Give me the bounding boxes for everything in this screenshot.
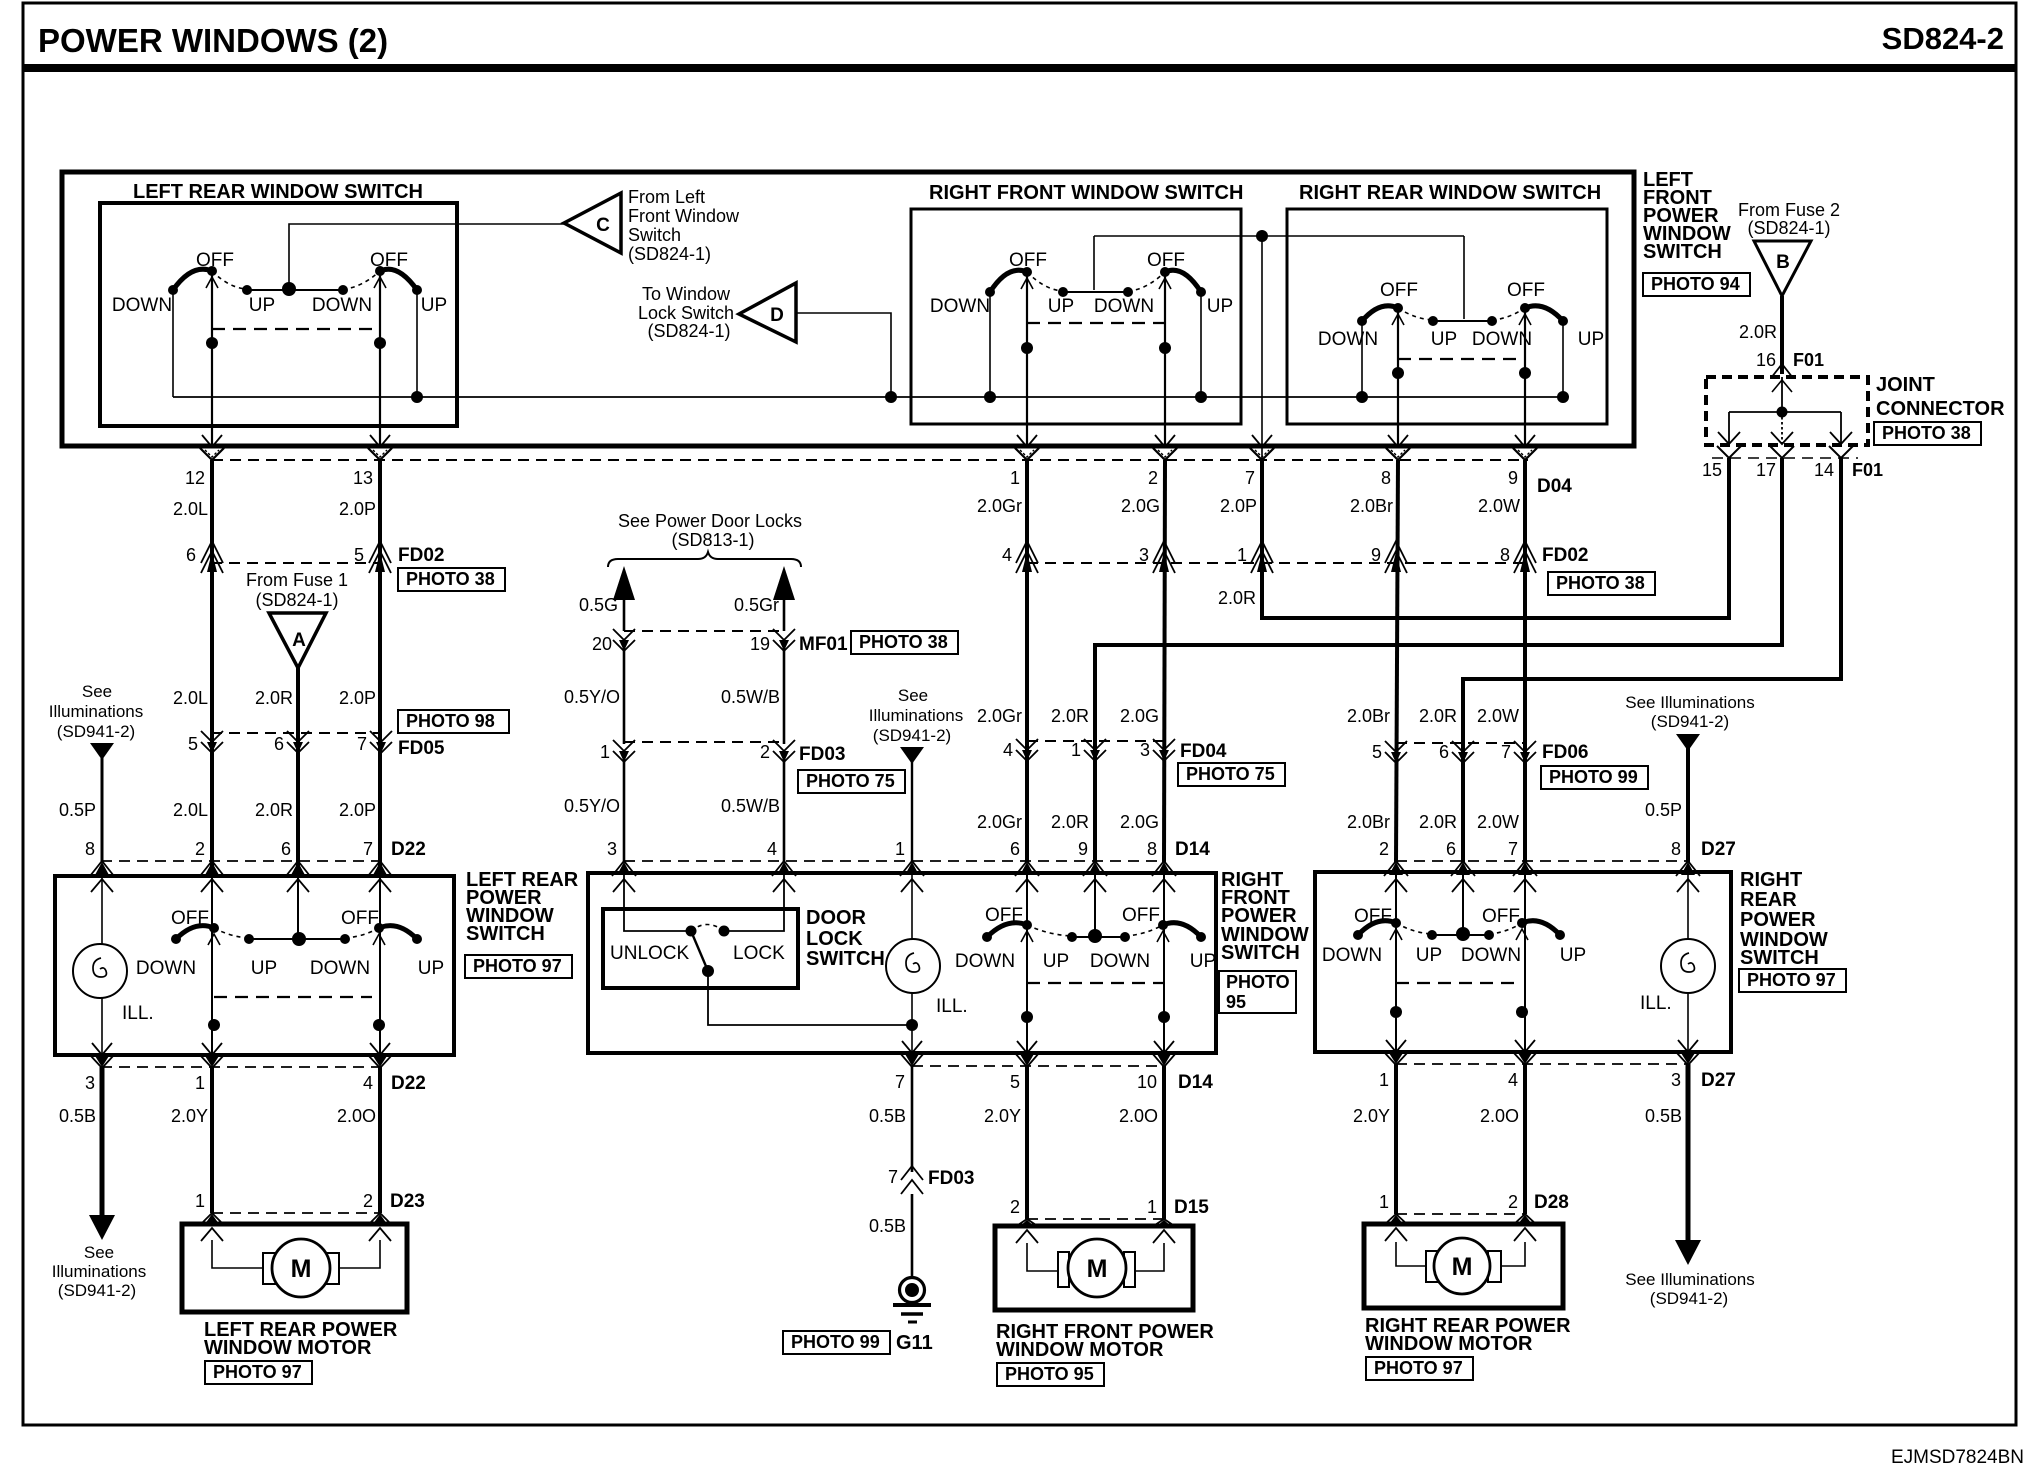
svg-text:1: 1 <box>1071 740 1081 760</box>
photo box PHOTO 75 FD03 <box>798 770 905 793</box>
svg-text:(SD941-2): (SD941-2) <box>1651 712 1729 731</box>
D23 pin 2 connector symbol <box>373 1214 387 1224</box>
FD02 pin 1 chevrons <box>1251 541 1273 563</box>
svg-text:1: 1 <box>1379 1070 1389 1090</box>
svg-text:C: C <box>596 215 610 236</box>
svg-text:6: 6 <box>1439 742 1449 762</box>
D15 pin 1 connector symbol <box>1157 1220 1171 1226</box>
right rear power switch motor wire 1 <box>1395 872 1397 1052</box>
D14 top pin 4 connector symbol <box>777 862 791 875</box>
svg-text:0.5W/B: 0.5W/B <box>721 796 780 816</box>
svg-text:2.0R: 2.0R <box>1419 706 1457 726</box>
left rear window switch right wiper arrow <box>374 277 386 288</box>
svg-text:6: 6 <box>1446 839 1456 859</box>
right front motor internal wire 2 <box>1134 1243 1164 1271</box>
left rear window switch left wiper arrow <box>206 277 218 288</box>
right front power switch mech dashed <box>1027 982 1163 984</box>
right front switch DOWN contact drop <box>989 292 991 397</box>
wire 2.0Y middle <box>1025 1066 1029 1219</box>
svg-text:2.0Y: 2.0Y <box>1353 1106 1390 1126</box>
svg-text:PHOTO 97: PHOTO 97 <box>1747 970 1836 990</box>
D15 pin 2 connector symbol <box>1020 1220 1034 1226</box>
D27 top pin 7 connector symbol <box>1518 862 1532 875</box>
door lock contact dots <box>686 926 697 937</box>
svg-text:FD03: FD03 <box>799 744 845 765</box>
svg-text:FD05: FD05 <box>398 738 445 759</box>
svg-text:PHOTO 38: PHOTO 38 <box>406 569 495 589</box>
svg-text:DOWN: DOWN <box>312 295 372 316</box>
door lock switch inner box <box>603 909 798 988</box>
left rear power switch center junction dot <box>292 932 306 946</box>
svg-text:LEFT REAR WINDOW SWITCH: LEFT REAR WINDOW SWITCH <box>133 181 423 203</box>
FD04 pin 1 chevrons <box>1084 739 1106 750</box>
svg-text:PHOTO 99: PHOTO 99 <box>1549 767 1638 787</box>
svg-text:7: 7 <box>363 839 373 859</box>
photo box PHOTO 38 MF01 <box>851 631 958 654</box>
svg-text:0.5P: 0.5P <box>1645 800 1682 820</box>
connector D27 top dashed line <box>1396 860 1688 862</box>
left rear power window switch left wiper dashed throw <box>214 928 249 938</box>
right front window switch right wiper arrow <box>1159 278 1171 289</box>
svg-text:REAR: REAR <box>1740 889 1797 911</box>
svg-text:UP: UP <box>418 958 444 979</box>
right rear power window switch contact dots <box>1353 930 1363 940</box>
right front switch mechanical link dashed <box>1027 322 1165 324</box>
right front power window switch left wiper arrow <box>1021 931 1033 942</box>
connector D14 bottom dashed line <box>912 1065 1164 1067</box>
svg-text:SWITCH: SWITCH <box>1643 241 1722 263</box>
svg-text:B: B <box>1776 252 1790 273</box>
svg-text:PHOTO 38: PHOTO 38 <box>1556 573 1645 593</box>
svg-text:2.0L: 2.0L <box>173 800 208 820</box>
svg-text:3: 3 <box>1139 545 1149 565</box>
svg-text:0.5B: 0.5B <box>869 1106 906 1126</box>
D27 bottom pin 4 connector symbol <box>1515 1040 1535 1052</box>
title divider bar <box>23 64 2016 72</box>
svg-text:7: 7 <box>888 1167 898 1187</box>
right rear window switch right OFF contact arc <box>1525 306 1563 321</box>
photo box PHOTO 97 right rear motor <box>1366 1357 1473 1380</box>
svg-text:UP: UP <box>1207 296 1233 317</box>
svg-text:2.0G: 2.0G <box>1120 706 1159 726</box>
right front window switch right OFF contact arc <box>1165 270 1201 292</box>
right rear power switch mech dashed <box>1396 982 1522 984</box>
D23 pin 1 connector symbol <box>205 1214 219 1224</box>
svg-text:1: 1 <box>895 839 905 859</box>
right rear window switch right wiper dashed throw <box>1492 308 1525 320</box>
left rear power window switch right wiper arrow <box>373 934 385 945</box>
right rear window switch left wiper arrow <box>1392 314 1404 325</box>
left motor internal wire 1 <box>212 1240 264 1268</box>
svg-text:See Illuminations: See Illuminations <box>1625 1270 1754 1289</box>
svg-text:2.0R: 2.0R <box>1218 588 1256 608</box>
left rear switch center feed to node C line <box>289 224 564 289</box>
FD03 pin 7 chevrons <box>901 1166 923 1180</box>
svg-text:D28: D28 <box>1534 1192 1569 1213</box>
photo box PHOTO 97 left switch <box>465 955 572 978</box>
svg-text:14: 14 <box>1814 460 1834 480</box>
svg-text:1: 1 <box>1147 1197 1157 1217</box>
svg-text:OFF: OFF <box>171 908 209 929</box>
svg-text:15: 15 <box>1702 460 1722 480</box>
svg-text:OFF: OFF <box>1122 905 1160 926</box>
svg-text:From Fuse 2: From Fuse 2 <box>1738 200 1840 220</box>
svg-text:(SD824-1): (SD824-1) <box>255 590 338 610</box>
right front window switch left wiper arrow <box>1021 278 1033 289</box>
door lock throw dashed arc <box>691 925 724 932</box>
photo box PHOTO 99 FD06 <box>1541 766 1648 789</box>
svg-text:UP: UP <box>249 295 275 316</box>
svg-text:SWITCH: SWITCH <box>1740 947 1819 969</box>
svg-text:FD03: FD03 <box>928 1168 974 1189</box>
photo box PHOTO 75 FD04 <box>1178 763 1285 786</box>
right rear power switch center junction dot <box>1456 927 1470 941</box>
connector triangle B <box>1754 241 1811 296</box>
svg-text:UP: UP <box>251 958 277 979</box>
right front window switch right wiper dashed throw <box>1128 272 1165 291</box>
svg-text:13: 13 <box>353 468 373 488</box>
svg-text:7: 7 <box>895 1072 905 1092</box>
svg-text:UNLOCK: UNLOCK <box>610 943 690 964</box>
right rear power window switch right wiper dashed throw <box>1489 923 1522 934</box>
left rear switch wire T1 drop to pin 12 <box>211 271 213 446</box>
svg-text:WINDOW MOTOR: WINDOW MOTOR <box>204 1337 372 1359</box>
svg-text:2.0W: 2.0W <box>1478 496 1520 516</box>
svg-text:2.0R: 2.0R <box>1051 812 1089 832</box>
FD03 pin 1 chevrons <box>613 740 635 751</box>
svg-text:0.5P: 0.5P <box>59 800 96 820</box>
svg-text:See: See <box>82 682 112 701</box>
svg-text:D22: D22 <box>391 839 426 860</box>
right front window switch center contact bar <box>1063 291 1128 293</box>
svg-text:D14: D14 <box>1178 1072 1213 1093</box>
svg-text:2.0Y: 2.0Y <box>171 1106 208 1126</box>
svg-text:D: D <box>770 305 784 326</box>
left rear window switch center contact bar <box>247 289 343 291</box>
ground G11 symbol <box>900 1278 925 1303</box>
svg-text:19: 19 <box>750 634 770 654</box>
svg-text:2.0Gr: 2.0Gr <box>977 496 1022 516</box>
svg-text:0.5Y/O: 0.5Y/O <box>564 796 620 816</box>
svg-text:0.5W/B: 0.5W/B <box>721 687 780 707</box>
svg-text:2.0P: 2.0P <box>339 499 376 519</box>
svg-text:2: 2 <box>1010 1197 1020 1217</box>
wire 2.0G trunk <box>1164 460 1165 862</box>
right front power switch drop junction dots <box>1021 1011 1033 1023</box>
svg-text:D27: D27 <box>1701 1070 1736 1091</box>
svg-text:DOWN: DOWN <box>1090 951 1150 972</box>
svg-text:17: 17 <box>1756 460 1776 480</box>
D22 bottom pin 3 connector symbol <box>92 1043 112 1055</box>
D14 top pin 9 connector symbol <box>1088 862 1102 875</box>
svg-text:9: 9 <box>1508 468 1518 488</box>
D22 bottom pin 4 connector symbol <box>370 1043 390 1055</box>
wire 0.5P middle feed <box>911 760 913 862</box>
right front motor terminal tabs <box>1058 1252 1069 1287</box>
svg-text:MF01: MF01 <box>799 634 848 655</box>
FD02 pin 8 chevrons <box>1514 541 1536 563</box>
svg-text:DOWN: DOWN <box>1094 296 1154 317</box>
photo box PHOTO 97 right rear switch <box>1739 969 1846 992</box>
D14 bottom pin 10 connector symbol <box>1154 1041 1174 1053</box>
right rear window switch right wiper arrow <box>1519 314 1531 325</box>
FD05 pin 5 chevrons <box>201 731 223 742</box>
FD03 pin 2 chevrons <box>773 740 795 751</box>
svg-text:1: 1 <box>600 742 610 762</box>
right front power window switch right wiper dashed throw <box>1125 925 1163 936</box>
right rear motor internal wire 1 <box>1396 1242 1427 1266</box>
photo box PHOTO 38 joint connector <box>1874 422 1981 445</box>
D04 pin 13 exit arrow <box>370 435 390 447</box>
connector D23 dashed line <box>212 1212 380 1214</box>
pin 16 chevron <box>1771 364 1793 378</box>
svg-text:EJMSD7824BN: EJMSD7824BN <box>1891 1447 2024 1468</box>
D04 pin 1 chevrons <box>1015 448 1039 460</box>
svg-text:1: 1 <box>1010 468 1020 488</box>
svg-text:OFF: OFF <box>1009 250 1047 271</box>
right front power window motor box <box>995 1226 1193 1310</box>
svg-text:JOINT: JOINT <box>1876 374 1935 396</box>
FD06 pin 6 chevrons <box>1452 741 1474 752</box>
wire 0.5Y/O lower <box>623 758 626 862</box>
svg-text:0.5B: 0.5B <box>59 1106 96 1126</box>
right front power switch motor wire 10 <box>1163 873 1165 1053</box>
D14 top pin 8 connector symbol <box>1157 862 1171 875</box>
svg-text:D14: D14 <box>1175 839 1210 860</box>
connector FD02 left dashed line <box>211 562 381 564</box>
svg-text:Illuminations: Illuminations <box>869 706 964 725</box>
connector D28 dashed line <box>1396 1213 1525 1215</box>
svg-text:UP: UP <box>1431 329 1457 350</box>
svg-text:0.5B: 0.5B <box>1645 1106 1682 1126</box>
svg-text:2.0W: 2.0W <box>1477 812 1519 832</box>
svg-text:3: 3 <box>1671 1070 1681 1090</box>
svg-text:2.0Br: 2.0Br <box>1347 706 1390 726</box>
right ILL lamp wire <box>1687 872 1689 1052</box>
svg-text:8: 8 <box>1500 545 1510 565</box>
wire tap down to D04 pin 7 <box>1261 236 1263 460</box>
svg-text:To Window: To Window <box>642 284 731 304</box>
FD02 pin 4 chevrons <box>1016 541 1038 563</box>
D04 pin 2 chevrons <box>1153 448 1177 460</box>
wire 2.0O left <box>378 1067 382 1213</box>
D14 bottom pin 7 connector symbol <box>902 1041 922 1053</box>
F01 pin row dashed line <box>1712 457 1858 459</box>
svg-text:7: 7 <box>1501 742 1511 762</box>
svg-text:RIGHT REAR WINDOW SWITCH: RIGHT REAR WINDOW SWITCH <box>1299 182 1601 204</box>
right rear power window switch right OFF contact arc <box>1522 921 1560 935</box>
right rear power window switch center contact bar <box>1432 934 1489 936</box>
right rear power window switch left wiper arrow <box>1390 929 1402 940</box>
right front power window switch contact dots <box>982 932 992 942</box>
svg-text:0.5Gr: 0.5Gr <box>734 595 779 615</box>
svg-text:95: 95 <box>1226 992 1246 1012</box>
svg-text:2.0Br: 2.0Br <box>1350 496 1393 516</box>
right front power window switch right wiper arrow <box>1157 931 1169 942</box>
svg-text:8: 8 <box>1381 468 1391 488</box>
top switch assembly outer box <box>62 172 1634 446</box>
FD04 pin 4 chevrons <box>1016 739 1038 750</box>
D27 bottom pin 3 connector symbol <box>1678 1040 1698 1052</box>
svg-text:UP: UP <box>1043 951 1069 972</box>
wire 2.0P to FD02 segment <box>1260 460 1264 566</box>
left rear power window motor box <box>182 1224 407 1312</box>
right front power window switch left wiper dashed throw <box>1027 925 1072 936</box>
junction dot lamp wire <box>906 1019 918 1031</box>
right rear power window motor box <box>1364 1224 1563 1308</box>
left rear power window switch right wiper dashed throw <box>345 928 379 938</box>
left rear window switch box <box>100 203 457 426</box>
svg-text:See: See <box>84 1243 114 1262</box>
svg-text:4: 4 <box>363 1073 373 1093</box>
svg-text:Switch: Switch <box>628 225 681 245</box>
photo box PHOTO 97 left motor <box>205 1361 312 1384</box>
left rear window switch contact dots <box>168 285 178 295</box>
wire center link right front to right rear <box>1094 235 1464 237</box>
wire 2.0P trunk <box>378 460 382 876</box>
joint connector pin 17 stub <box>1781 412 1783 444</box>
svg-text:PHOTO 97: PHOTO 97 <box>213 1362 302 1382</box>
svg-text:POWER WINDOWS (2): POWER WINDOWS (2) <box>38 22 388 59</box>
svg-text:0.5G: 0.5G <box>579 595 618 615</box>
wire 0.5P left feed <box>101 755 104 862</box>
svg-text:3: 3 <box>85 1073 95 1093</box>
connector D22 bottom dashed line <box>101 1066 381 1068</box>
arrow from illuminations left <box>90 743 114 760</box>
right front window switch left OFF contact arc <box>990 270 1027 292</box>
svg-text:9: 9 <box>1371 545 1381 565</box>
svg-text:POWER: POWER <box>1740 909 1816 931</box>
wire 2.0R joint connector 17 to FD04 <box>1095 458 1782 862</box>
svg-text:ILL.: ILL. <box>122 1003 154 1024</box>
right rear window switch box <box>1287 209 1607 424</box>
svg-text:7: 7 <box>1508 839 1518 859</box>
FD06 pin 7 chevrons <box>1514 741 1536 752</box>
svg-text:See: See <box>898 686 928 705</box>
D27 top pin 6 connector symbol <box>1456 862 1470 875</box>
svg-text:2.0L: 2.0L <box>173 688 208 708</box>
svg-text:2.0Gr: 2.0Gr <box>977 706 1022 726</box>
svg-text:Illuminations: Illuminations <box>52 1262 147 1281</box>
FD02 pin 3 chevrons <box>1153 541 1175 563</box>
svg-text:0.5B: 0.5B <box>869 1216 906 1236</box>
svg-text:PHOTO 38: PHOTO 38 <box>859 632 948 652</box>
left rear power window switch left wiper arrow <box>208 934 220 945</box>
right rear window switch left wiper dashed throw <box>1398 308 1433 320</box>
svg-text:12: 12 <box>185 468 205 488</box>
left rear power window switch left OFF contact arc <box>176 926 214 939</box>
left rear power window switch right OFF contact arc <box>379 926 417 939</box>
wire 2.0Y left <box>210 1067 214 1213</box>
left rear window switch left wiper dashed throw <box>212 271 247 289</box>
FD02 pin 9 chevrons <box>1385 541 1407 563</box>
svg-text:M: M <box>291 1255 312 1283</box>
svg-text:UP: UP <box>1048 296 1074 317</box>
svg-text:1: 1 <box>195 1191 205 1211</box>
svg-text:PHOTO 95: PHOTO 95 <box>1005 1364 1094 1384</box>
left rear window switch right wiper dashed throw <box>343 271 380 289</box>
joint connector pin 14 stub <box>1840 412 1842 444</box>
right rear window switch contact dots <box>1357 316 1367 326</box>
svg-text:0.5Y/O: 0.5Y/O <box>564 687 620 707</box>
D22 top pin 8 connector symbol <box>95 862 109 875</box>
left rear power window switch box <box>55 876 454 1055</box>
svg-text:SD824-2: SD824-2 <box>1882 21 2004 56</box>
right ILL lamp filament <box>1681 953 1694 972</box>
svg-text:7: 7 <box>1245 468 1255 488</box>
svg-text:DOWN: DOWN <box>1461 945 1521 966</box>
svg-text:6: 6 <box>186 545 196 565</box>
svg-text:16: 16 <box>1756 350 1776 370</box>
right front window switch box <box>911 209 1241 424</box>
svg-text:(SD941-2): (SD941-2) <box>1650 1289 1728 1308</box>
wire 2.0Y right <box>1394 1064 1398 1214</box>
photo box PHOTO 99 ground <box>783 1331 890 1354</box>
left ILL lamp circle <box>73 944 127 998</box>
svg-text:2.0R: 2.0R <box>255 800 293 820</box>
svg-text:PHOTO: PHOTO <box>1226 972 1290 992</box>
D14 top pin 6 connector symbol <box>1020 862 1034 875</box>
D04 pin 12 chevrons <box>200 448 224 460</box>
photo box PHOTO 94 <box>1643 273 1750 296</box>
FD02 pin 5 chevrons <box>369 541 391 563</box>
right rear motor M circle <box>1434 1238 1490 1294</box>
svg-text:1: 1 <box>1379 1192 1389 1212</box>
D04 pin 12 exit arrow <box>202 435 222 447</box>
svg-text:2.0P: 2.0P <box>339 688 376 708</box>
svg-text:1: 1 <box>1237 545 1247 565</box>
svg-text:DOWN: DOWN <box>1318 329 1378 350</box>
wire 2.0Br trunk <box>1396 460 1398 862</box>
svg-text:See Power Door Locks: See Power Door Locks <box>618 511 802 531</box>
right front switch UP contact drop <box>1200 292 1202 397</box>
svg-text:2.0L: 2.0L <box>173 499 208 519</box>
wire 0.5B right to illuminations <box>1686 1064 1691 1243</box>
right front switch junction dots on drops <box>1021 342 1033 354</box>
D04 pin 2 exit arrow <box>1155 435 1175 447</box>
svg-text:(SD941-2): (SD941-2) <box>57 722 135 741</box>
D04 pin 7 chevrons <box>1250 448 1274 460</box>
svg-text:SWITCH: SWITCH <box>1221 942 1300 964</box>
connector triangle C <box>564 193 621 253</box>
svg-text:WINDOW MOTOR: WINDOW MOTOR <box>1365 1333 1533 1355</box>
svg-text:4: 4 <box>767 839 777 859</box>
svg-text:DOWN: DOWN <box>112 295 172 316</box>
photo box PHOTO 98 <box>398 710 509 733</box>
wire 2.0O right <box>1523 1064 1527 1214</box>
wire 2.0R fuse1 trunk <box>296 668 300 876</box>
right rear switch center feed riser <box>1463 236 1465 319</box>
connector FD06 dashed line <box>1396 742 1525 744</box>
svg-text:5: 5 <box>1010 1072 1020 1092</box>
photo box PHOTO 95 motor <box>997 1363 1104 1386</box>
left rear power switch mech dashed <box>214 996 372 998</box>
bus junction dot at left rear UP <box>411 391 423 403</box>
svg-text:A: A <box>292 630 306 651</box>
left rear switch mechanical link dashed <box>212 328 380 330</box>
right rear switch wire T1 drop to pin 8 <box>1397 308 1399 446</box>
left rear power window switch center contact bar <box>249 938 345 940</box>
MF01 pin 20 chevrons <box>613 629 635 640</box>
connector D04 dashed line <box>212 459 1528 461</box>
right rear switch junction dots on drops <box>1392 367 1404 379</box>
FD06 pin 5 chevrons <box>1385 741 1407 752</box>
joint connector dashed box <box>1706 377 1868 445</box>
svg-text:Lock Switch: Lock Switch <box>638 303 734 323</box>
svg-text:2.0R: 2.0R <box>255 688 293 708</box>
wire 2.0Gr trunk <box>1025 460 1029 862</box>
svg-text:5: 5 <box>1372 742 1382 762</box>
